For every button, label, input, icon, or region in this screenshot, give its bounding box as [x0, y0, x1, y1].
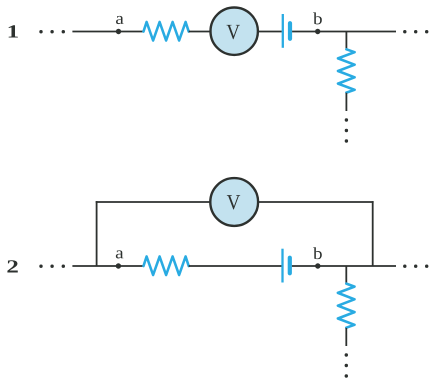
node a (circuit 2) [116, 263, 121, 268]
wire resistor to battery (circuit 2) [189, 265, 282, 267]
battery B1 long plate (circuit 1) [282, 14, 284, 48]
node a (circuit 1) [116, 29, 121, 34]
wire below R2 (circuit 1) [345, 93, 347, 111]
ellipsis right continuation (circuit 2) [403, 265, 428, 268]
ellipsis right continuation (circuit 1) [403, 30, 428, 33]
node label b (circuit 2) [313, 247, 322, 259]
battery B2 short plate (circuit 2) [288, 258, 292, 274]
wire branch junction down (circuit 2) [345, 266, 347, 283]
battery B2 long plate (circuit 2) [281, 249, 283, 283]
wire branch junction down (circuit 1) [345, 32, 347, 49]
ellipsis branch continuation (circuit 2) [345, 353, 348, 377]
ellipsis left continuation (circuit 2) [39, 265, 65, 268]
voltmeter V2 body (circuit 2) [210, 178, 258, 226]
wire resistor to voltmeter (circuit 1) [189, 31, 211, 33]
battery B1 short plate (circuit 1) [288, 23, 292, 39]
wire below R4 (circuit 2) [345, 328, 347, 346]
wire battery to right end (circuit 2) [292, 265, 396, 267]
resistor R2 vertical (circuit 1) [338, 49, 355, 92]
ellipsis branch continuation (circuit 1) [345, 118, 348, 142]
node b (circuit 1) [315, 29, 320, 34]
wire voltmeter loop top left (circuit 2) [96, 201, 211, 203]
ellipsis left continuation (circuit 1) [39, 30, 65, 33]
wire voltmeter loop right vertical (circuit 2) [372, 201, 374, 266]
node label a (circuit 2) [116, 250, 124, 258]
resistor R4 vertical (circuit 2) [338, 284, 355, 328]
node b (circuit 2) [315, 263, 320, 268]
circuit 1 number label [9, 25, 18, 37]
wire voltmeter loop left vertical (circuit 2) [96, 201, 98, 266]
circuit 2 number label [7, 260, 17, 272]
resistor R1 horizontal (circuit 1) [144, 22, 189, 41]
wire battery to right end (circuit 1) [292, 31, 396, 33]
wire voltmeter to battery (circuit 1) [258, 31, 282, 33]
wire left to resistor (circuit 2) [72, 265, 144, 267]
voltmeter V1 label V [227, 25, 240, 39]
node label b (circuit 1) [313, 12, 322, 24]
resistor R3 horizontal (circuit 2) [144, 257, 189, 276]
voltmeter V2 label V [227, 195, 240, 209]
wire voltmeter loop top right (circuit 2) [258, 201, 374, 203]
voltmeter V1 body (circuit 1) [211, 8, 258, 55]
wire left to resistor (circuit 1) [72, 31, 144, 33]
node label a (circuit 1) [116, 16, 124, 24]
